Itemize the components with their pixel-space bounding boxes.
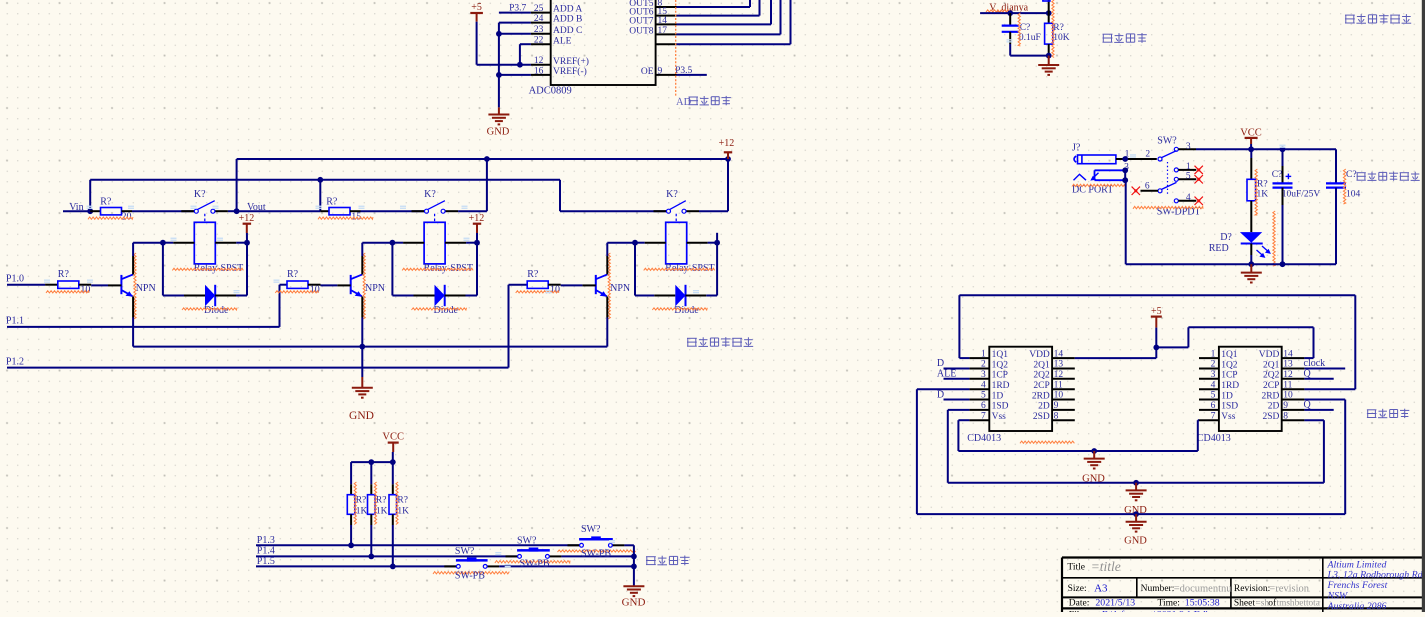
node ADD C junction [496, 31, 502, 37]
svg-text:C?: C? [1272, 170, 1283, 180]
connector J? DC PORT [1072, 143, 1125, 196]
wire diode loop right [445, 243, 477, 296]
relay Relay-SPST (circuit 3) [644, 222, 715, 273]
U1 pin 9 2D [1038, 401, 1075, 412]
svg-text:10: 10 [1054, 391, 1064, 401]
wire emitter [361, 296, 363, 346]
node relay-left/diode junction [390, 240, 396, 246]
op-amp U? ADC0809 body [529, 0, 656, 97]
svg-text:=sh: =sh [1256, 599, 1270, 609]
svg-text:12: 12 [1054, 370, 1064, 380]
relay Relay-SPST (circuit 2) [402, 222, 473, 273]
wire stub to cut component above [1043, 0, 1050, 13]
wire Vout to R15 [237, 210, 321, 212]
wire OUT bus 3 [677, 0, 772, 24]
node VCC rail R2 [368, 459, 374, 465]
svg-text:D?: D? [1220, 232, 1232, 243]
wire cap bottom to ground net [1010, 44, 1048, 56]
svg-text:clock: clock [1304, 358, 1326, 369]
U2 pin 7 Vss [1199, 411, 1236, 422]
resistor R? 10K (divider) [1045, 0, 1070, 58]
node relay-right junction [474, 240, 480, 246]
node Vout [234, 202, 266, 214]
node resistor top junction [1046, 10, 1052, 16]
wire DC port to ground rail [1124, 170, 1127, 264]
U1 pin 4 1RD [969, 380, 1009, 391]
U2 pin 4 1RD [1199, 380, 1239, 391]
wire OUT bus 1 [677, 0, 751, 7]
U1 pin 3 1CP [969, 370, 1008, 381]
U2 pin 12 2Q2 [1263, 370, 1304, 381]
U1 pin 6 1SD [969, 401, 1008, 412]
svg-text:Number:: Number: [1141, 584, 1175, 594]
svg-text:J?: J? [1072, 143, 1081, 154]
wire Vss rail [958, 420, 1199, 451]
node VREF(+)/ALE junction [517, 62, 523, 68]
pin 15 OUT6 [629, 7, 676, 18]
svg-text:2: 2 [1145, 149, 1150, 159]
capacitor C? 0.1uF [1002, 13, 1041, 46]
rail +12 top [237, 158, 728, 160]
resistor R? 15 [318, 197, 425, 223]
wire diode loop left [392, 243, 434, 296]
pin 12 VREF(+) [531, 56, 589, 67]
wire switch2 to rail1 [458, 159, 487, 211]
svg-text:6: 6 [981, 401, 986, 411]
net label P1.1 and wire [6, 316, 280, 327]
switch K? (circuit 2) [412, 189, 459, 213]
net label Vin [69, 202, 83, 213]
node pullup 1 junction [348, 542, 354, 548]
svg-text:Date:: Date: [1069, 599, 1090, 609]
ground GND (divider) [1038, 56, 1059, 75]
transistor Q NPN (circuit 2) [351, 253, 385, 319]
ground GND (load switch) [349, 347, 374, 422]
relay link (dashed) [204, 214, 206, 223]
resistor R? 10 (base 2) [275, 269, 337, 295]
svg-text:2Q2: 2Q2 [1263, 371, 1280, 381]
U1 pin 14 VDD [1029, 349, 1075, 360]
wire P1.5 after button [499, 565, 634, 567]
wire LED to ground rail [1250, 255, 1252, 264]
power +12 (circuit 3) [719, 138, 735, 159]
svg-text:Frenchs Forest: Frenchs Forest [1327, 580, 1388, 591]
net label ALE wire [937, 369, 970, 380]
svg-text:1RD: 1RD [1221, 381, 1239, 391]
svg-text:D: D [937, 358, 944, 369]
svg-text:7: 7 [1211, 411, 1216, 421]
svg-text:2Q2: 2Q2 [1033, 371, 1050, 381]
node +12 top right junction [725, 156, 731, 162]
net label P3.7 [499, 3, 531, 13]
wire U1 1RD to U2 2RD (lower loop) [917, 389, 1345, 514]
svg-text:10: 10 [1283, 391, 1293, 401]
svg-text:14: 14 [1054, 349, 1064, 359]
pin 25 ADD A [531, 4, 583, 15]
node pullup 3 junction [390, 564, 396, 570]
node ground junction [1046, 53, 1052, 59]
svg-text:CD4013: CD4013 [1197, 433, 1231, 444]
transistor Q NPN (circuit 3) [596, 253, 630, 319]
ground GND (ADC) [487, 107, 510, 137]
resistor R? 1K (pullup 3) [389, 462, 409, 566]
svg-text:1D: 1D [1221, 391, 1233, 401]
node cap1 bottom [1280, 261, 1286, 267]
resistor R? 10 (base 3) [516, 269, 583, 295]
U1 pin 12 2Q2 [1033, 370, 1074, 381]
svg-text:4: 4 [1211, 380, 1216, 390]
pin 16 VREF(-) [531, 66, 587, 77]
wire relay left pin [607, 242, 665, 244]
svg-text:9: 9 [1283, 401, 1288, 411]
pin 24 ADD B [531, 14, 582, 25]
node relay-right junction [244, 240, 250, 246]
svg-text:Size:: Size: [1068, 584, 1087, 594]
ground GND (clock 3) [1124, 514, 1147, 547]
svg-text:13: 13 [1054, 360, 1064, 370]
node rail1/switch2 junction [484, 156, 490, 162]
U1 pin 7 Vss [969, 411, 1006, 422]
pin 1 (tip) [1116, 149, 1157, 159]
relay link (dashed) [675, 214, 677, 223]
section label clock circuit [1367, 409, 1409, 418]
svg-text:3: 3 [1211, 370, 1216, 380]
U1 pin 8 2SD [1033, 411, 1075, 422]
wire V_dianya rail [980, 12, 1049, 14]
wire OUT bus 2 [677, 0, 760, 16]
svg-text:L3, 12a Rodborough Rd: L3, 12a Rodborough Rd [1327, 570, 1423, 581]
svg-text:C?: C? [1346, 170, 1357, 180]
svg-text:2Q1: 2Q1 [1033, 360, 1050, 370]
wire P1.1 riser [280, 285, 288, 327]
resistor R? 1K (pullup 1) [347, 462, 367, 545]
node VCC junction [1248, 146, 1254, 152]
svg-text:GND: GND [1082, 474, 1105, 485]
node ring junction [1122, 167, 1128, 183]
svg-text:Time:: Time: [1158, 599, 1180, 609]
svg-text:2CP: 2CP [1033, 381, 1049, 391]
net label Q (2Q2) wire [1304, 369, 1334, 380]
wire +5 to U2 VDD [1156, 327, 1313, 358]
svg-text:2D: 2D [1268, 402, 1280, 412]
svg-text:3: 3 [981, 370, 986, 380]
svg-text:Vss: Vss [992, 412, 1007, 422]
svg-text:tmshbettota: tmshbettota [1277, 599, 1320, 609]
wire diode loop right [215, 243, 247, 296]
svg-text:Altium Limited: Altium Limited [1327, 559, 1387, 570]
net label D (pin5) wire [937, 389, 970, 400]
U1 pin 1 1Q1 [969, 349, 1008, 360]
svg-text:1K: 1K [1257, 189, 1269, 199]
svg-text:2Q1: 2Q1 [1263, 360, 1280, 370]
switch SW? SW-PB (P1.3) [558, 524, 636, 560]
pin 4 no-connect [1178, 193, 1196, 203]
node relay-left/diode junction [160, 240, 166, 246]
diode D (circuit 1) [182, 285, 237, 316]
svg-text:1SD: 1SD [992, 402, 1009, 412]
wire emitter [606, 296, 608, 346]
svg-text:=revision: =revision [1269, 583, 1309, 594]
svg-text:Sheet: Sheet [1234, 599, 1255, 609]
no-connect X pin 4 [1195, 197, 1203, 205]
ground GND (supply) [1241, 264, 1262, 282]
net label P1.4 and wire [256, 546, 518, 557]
U2 pin 5 1D [1199, 391, 1233, 402]
wire collector [606, 243, 608, 275]
svg-text:1Q1: 1Q1 [992, 350, 1009, 360]
switch SW? SW-PB (P1.5) [433, 546, 509, 582]
grid snap marks [44, 39, 1286, 567]
wire emitter rail [133, 346, 607, 348]
svg-text:1: 1 [1211, 349, 1216, 359]
U1 pin 10 2RD [1032, 391, 1075, 402]
power +5 (ADC reference) [470, 2, 483, 22]
wire diode loop left [163, 243, 205, 296]
capacitor C? 10uF/25V [1272, 149, 1321, 264]
wire switch3 to +12 [699, 159, 728, 211]
wire ALE to +5 net [499, 23, 531, 65]
pin 22 ALE [531, 36, 572, 47]
node LED/ground junction [1248, 261, 1254, 267]
wire ADD B / ADD C / VREF(-) to GND [499, 23, 531, 108]
selection mark CD4013 (orange) [1020, 441, 1074, 443]
svg-text:7: 7 [981, 411, 986, 421]
U2 pin 3 1CP [1199, 370, 1238, 381]
switch K? (circuit 1) [181, 189, 228, 213]
svg-text:2SD: 2SD [1033, 412, 1050, 422]
node common P1.5 [631, 564, 637, 570]
wire OUT bus 4 [677, 0, 781, 34]
resistor R? 1K (pullup 2) [368, 462, 388, 556]
node emitter/GND junction [359, 344, 365, 350]
node tip junction [1122, 156, 1128, 162]
svg-text:1Q2: 1Q2 [1221, 360, 1238, 370]
svg-text:Revision:: Revision: [1234, 584, 1270, 594]
window edge strip [1422, 0, 1425, 612]
wire P1.3 after button [624, 544, 634, 546]
svg-text:Q: Q [1304, 400, 1312, 411]
wire rail2 drop to R15 [319, 180, 321, 211]
U2 pin 8 2SD [1262, 411, 1304, 422]
title block row: Date / Time / Sheet [1069, 598, 1320, 609]
op-amp U1 CD4013 body [967, 347, 1052, 444]
wire Vin [63, 210, 90, 212]
pin (unnamed data pin) [656, 43, 677, 45]
title block frame [1062, 558, 1425, 613]
resistor R? 1K (LED) [1247, 149, 1268, 232]
svg-text:SW?: SW? [1157, 135, 1177, 146]
svg-text:6: 6 [1145, 181, 1150, 191]
svg-text:3: 3 [1186, 142, 1191, 152]
wire Vin riser to rail [89, 180, 91, 211]
wire +5 to U1 VDD [1075, 347, 1157, 358]
node common P1.4 [631, 554, 637, 560]
net label P1.3 and wire [256, 535, 579, 546]
wire collector [132, 243, 134, 275]
diode D (circuit 3) [652, 285, 707, 316]
svg-text:CD4013: CD4013 [967, 433, 1001, 444]
wire U1 1SD to U2 2SD (mid loop) [948, 410, 1324, 483]
LED D? RED [1209, 211, 1276, 266]
wire diode loop left [635, 243, 675, 296]
wire emitter [132, 296, 134, 346]
ground GND (clock 2) [1124, 483, 1147, 516]
wire buttons common drop [633, 545, 635, 585]
transistor Q NPN (circuit 1) [121, 253, 155, 319]
selection mark (orange dashed) [675, 0, 677, 97]
node GND1 junction [1091, 448, 1097, 454]
svg-text:2SD: 2SD [1262, 412, 1279, 422]
power +12 (circuit 2) [469, 213, 485, 243]
U2 pin 9 2D [1268, 401, 1305, 412]
svg-text:1Q2: 1Q2 [992, 360, 1009, 370]
wire P1.4 after button [561, 555, 634, 557]
svg-text:1RD: 1RD [992, 381, 1010, 391]
capacitor C? 104 [1326, 149, 1361, 264]
svg-text:4: 4 [981, 380, 986, 390]
svg-text:2CP: 2CP [1263, 381, 1279, 391]
svg-text:NSW: NSW [1327, 591, 1349, 602]
section label divider circuit [1103, 33, 1147, 43]
net label P1.5 and wire [256, 556, 456, 567]
svg-text:D: D [937, 389, 944, 400]
ground GND (clock 1) [1082, 451, 1105, 485]
power +12 (circuit 1) [239, 213, 255, 243]
node cap junction [1007, 10, 1013, 16]
relay Relay-SPST (circuit 1) [172, 222, 243, 273]
section label AD conversion module [676, 96, 731, 108]
U1 pin 5 1D [969, 391, 1003, 402]
no-connect X pin 5 [1195, 175, 1203, 183]
node Vin junction [87, 208, 93, 214]
wire P1.2 riser [509, 285, 528, 368]
wire relay left pin [133, 242, 194, 244]
wire relay3 stub [716, 233, 718, 243]
net label V_dianya [986, 2, 1029, 13]
svg-text:5: 5 [1186, 172, 1191, 182]
net label clock wire [1304, 358, 1346, 369]
resistor R? 20 [88, 197, 194, 223]
wire VCC top rail [351, 461, 393, 463]
svg-text:2D: 2D [1038, 402, 1050, 412]
wire OE / net label P3.5 [675, 66, 707, 76]
wire base [337, 284, 350, 286]
svg-text:2: 2 [1211, 360, 1216, 370]
net label P1.2 and wire [6, 356, 509, 367]
U2 pin 6 1SD [1199, 401, 1238, 412]
svg-text:104: 104 [1346, 189, 1361, 199]
svg-text:2: 2 [981, 360, 986, 370]
power +5 (clock) [1151, 306, 1162, 347]
power VCC (keys) [382, 431, 404, 462]
svg-text:11: 11 [1283, 380, 1292, 390]
svg-text:Q: Q [1304, 369, 1312, 380]
node GND3 junction [1133, 511, 1139, 517]
U2 pin 13 2Q1 [1263, 360, 1304, 371]
section label load switching circuit [687, 337, 753, 347]
title block address [1327, 559, 1423, 612]
wire base [108, 284, 121, 286]
U2 pin 1 1Q1 [1199, 349, 1238, 360]
section label system power supply [1357, 172, 1420, 181]
svg-text:RED: RED [1209, 243, 1229, 254]
node GND2 junction [1133, 480, 1139, 486]
pin 9 OE [641, 66, 677, 77]
U2 pin 11 2CP [1263, 380, 1304, 391]
pin 8 OUT5 [629, 0, 676, 9]
title block row: Title [1067, 559, 1120, 574]
node relay-left/diode junction [632, 240, 638, 246]
wire relay right pin [215, 242, 247, 244]
svg-text:5: 5 [981, 391, 986, 401]
svg-text:GND: GND [1124, 536, 1147, 547]
section label current detect circuit [1345, 14, 1411, 24]
node cap1 top [1280, 146, 1286, 152]
switch SW? SW-DPDT [1133, 135, 1203, 217]
rail Vin (second) [90, 179, 560, 181]
switch K? (circuit 3) [654, 189, 700, 213]
U2 pin 10 2RD [1261, 391, 1304, 402]
node rail2 junction to R15 [317, 177, 323, 183]
svg-text:11: 11 [1054, 380, 1063, 390]
wire diode loop right [686, 243, 718, 296]
svg-text:15:05:38: 15:05:38 [1185, 598, 1220, 609]
svg-text:13: 13 [1283, 360, 1293, 370]
net label P1.0 and wire [6, 274, 45, 285]
U1 pin 11 2CP [1033, 380, 1074, 391]
U1 pin 2 1Q2 [969, 360, 1008, 371]
svg-text:1CP: 1CP [1221, 371, 1237, 381]
svg-text:1: 1 [981, 349, 986, 359]
svg-text:=documentnu: =documentnu [1174, 583, 1233, 594]
svg-text:1Q1: 1Q1 [1221, 350, 1238, 360]
node +5 junction [1153, 345, 1159, 351]
svg-text:10uF/25V: 10uF/25V [1282, 189, 1321, 199]
section label key circuit [646, 556, 690, 566]
svg-text:A3: A3 [1094, 583, 1108, 595]
svg-text:1CP: 1CP [992, 371, 1008, 381]
wire collector [361, 243, 363, 275]
svg-text:Australia 2086: Australia 2086 [1327, 601, 1387, 612]
svg-text:1SD: 1SD [1221, 402, 1238, 412]
ground rail (supply) [1126, 263, 1336, 265]
svg-text:9: 9 [1054, 401, 1059, 411]
svg-text:8: 8 [1283, 411, 1288, 421]
U1 pin 13 2Q1 [1033, 360, 1074, 371]
pin 5 no-connect [1178, 172, 1196, 182]
power VCC (supply) [1240, 128, 1262, 150]
node VREF(-) junction [496, 72, 502, 78]
svg-text:Vss: Vss [1221, 412, 1236, 422]
relay link (dashed) [434, 214, 436, 223]
svg-text:2RD: 2RD [1261, 391, 1279, 401]
wire Vout riser to +12 rail [236, 159, 238, 211]
no-connect X pin 1 [1195, 166, 1203, 174]
svg-text:R?: R? [1257, 179, 1268, 189]
op-amp U2 CD4013 body [1197, 347, 1282, 444]
svg-text:VDD: VDD [1259, 350, 1280, 360]
wire switch1 to Vout [228, 210, 237, 212]
U2 pin 2 1Q2 [1199, 360, 1238, 371]
node relay-right junction [714, 240, 720, 246]
ground GND (keys) [622, 586, 646, 609]
pin 3 wire (to VCC rail) [1178, 142, 1336, 152]
wire U1 1Q1 to U2 2CP [959, 295, 1355, 389]
pin 3 (ring) [1124, 163, 1129, 173]
svg-text:VDD: VDD [1029, 350, 1050, 360]
wire +5 to VREF(+) [477, 22, 531, 65]
pin 1 no-connect [1178, 162, 1196, 172]
